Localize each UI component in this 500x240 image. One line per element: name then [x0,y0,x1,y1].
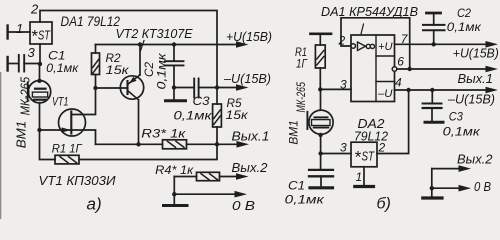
wire: output to Vyh1 [397,68,487,70]
ground symbol at C2 [166,88,186,101]
capacitor C3 [194,79,198,98]
svg-text:R4* 1к: R4* 1к [155,165,194,177]
svg-text:1: 1 [356,170,363,184]
pin 6 output circle [392,67,397,72]
op-amp DA1 box [351,35,395,102]
resistor R1 [55,155,79,164]
wire: -U arrow line [217,87,238,89]
wire: R4 down to 0V node [173,177,175,195]
svg-text:6: 6 [397,54,404,68]
svg-text:С2: С2 [142,62,156,77]
svg-text:R3* 1к: R3* 1к [141,129,186,141]
wire: DA1 pin3 down to node A [39,44,41,64]
wire: +U rail [96,44,239,46]
wire: to DA2 pin 3 [321,153,351,155]
svg-text:Вых.1: Вых.1 [232,129,270,143]
junction dot -U rail [215,85,219,89]
svg-text:–U(15В): –U(15В) [447,92,495,106]
capacitor C2 (b) [423,15,445,45]
capacitor C3 (b) [423,90,442,121]
svg-text:+U(15В): +U(15В) [226,30,272,44]
svg-text:ST: ST [362,150,376,164]
microphone BM1 MK-265 [28,79,51,103]
wire: -U rail right segment [199,87,217,89]
wire: 0V arrow line (b) [432,187,461,189]
op-amp triangle symbol [358,42,366,51]
junction dot 0V node [172,192,176,196]
svg-text:0,1мк: 0,1мк [157,53,169,90]
svg-text:С3: С3 [193,94,210,108]
svg-text:+U(15В): +U(15В) [453,47,499,61]
wire: pin3 input [320,88,351,90]
+U arrowhead (b) [486,41,499,48]
svg-text:Вых.2: Вых.2 [232,161,268,175]
junction dot R1 bottom [318,87,322,91]
wire: pin7 to +U [395,43,488,45]
ground bar DA2 pin1 [355,185,374,188]
junction dot feedback/output [408,67,412,71]
wire: Vyh2 branch vertical [431,169,433,189]
wire: pin2 feedback loop [341,18,410,69]
svg-text:DA1 КР544УД1В: DA1 КР544УД1В [321,4,418,19]
svg-text:МК-265: МК-265 [296,82,308,113]
wire: -U rail left segment [174,87,194,89]
svg-text:VT1 КП303И: VT1 КП303И [39,174,116,188]
svg-text:C3: C3 [449,109,463,123]
svg-text:R1 1Г: R1 1Г [52,143,83,155]
junction dot 0V (b) [430,186,434,190]
svg-text:Вых.2: Вых.2 [457,153,493,167]
svg-text:а): а) [87,195,102,214]
transistor VT2 KT3107E [120,75,143,100]
junction dot collector/source line [136,142,140,146]
junction dot Vyh1 [215,142,219,146]
svg-text:–U(15В): –U(15В) [223,72,271,86]
leader line to op-amp [361,24,364,34]
Vyh2 arrowhead [236,173,249,180]
svg-text:15к: 15к [226,108,250,122]
wire: Vyh2 arrow line [432,168,461,170]
svg-text:0,1мк: 0,1мк [285,195,325,207]
capacitor C2 [165,45,184,88]
Vyh1 arrowhead (b) [486,66,499,73]
junction dot C3 top (b) [430,88,434,92]
wire: pin4 to -U [395,89,488,91]
svg-text:0 В: 0 В [232,199,255,213]
-U arrowhead [236,84,249,91]
junction dot VT2 emitter on +U rail [138,42,142,46]
junction dot C2 bottom (b) [432,42,436,46]
svg-text:Вых.1: Вых.1 [458,72,494,86]
leader line to VT2 [141,41,145,52]
wire: DA2 pin1 to ground [363,167,365,186]
svg-text:–U: –U [377,88,393,100]
wire: DA1 pin2 to top rail down to -U junction [40,11,217,88]
node B junction dot [93,86,97,90]
svg-text:3: 3 [340,140,347,154]
wire: mic top to R1 junction [320,89,322,110]
ground symbol (b outputs) [423,188,442,198]
gate node junction dot [37,128,41,132]
wire: R1 to Vyh1 junction [79,144,217,159]
gate arrow of VT1 [62,127,71,132]
junction dot mic bottom [318,133,322,137]
svg-text:1Г: 1Г [296,57,308,71]
wire: node A to microphone [39,64,41,81]
svg-text:0 В: 0 В [474,180,491,194]
resistor R4 [174,172,238,180]
wire: 0V arrow line [174,193,236,195]
svg-text:+U: +U [378,41,393,53]
Vyh2 arrowhead (b) [459,165,472,172]
svg-text:2: 2 [338,34,346,48]
page edge artifact [0,72,1,219]
svg-text:ВМ1: ВМ1 [14,121,29,149]
0V arrowhead (b) [459,185,472,192]
-U arrowhead (b) [486,87,499,94]
resistor R5 [213,88,222,145]
svg-text:DA1 79L12: DA1 79L12 [61,13,121,29]
svg-text:2: 2 [30,2,39,17]
label BM1 MK-265 vertical (b) [289,82,309,145]
svg-text:С1: С1 [288,178,305,192]
svg-text:С1: С1 [48,48,66,62]
Vyh1 arrowhead [237,141,250,148]
svg-text:ВМ1: ВМ1 [289,120,301,145]
svg-text:0,1мк: 0,1мк [447,22,482,34]
wire: DA2 pin2 up to -U line [377,90,409,154]
svg-text:4: 4 [395,75,402,89]
label BM1 MK-265 vertical [14,76,33,148]
transistor VT1 KP303I [59,109,86,136]
wire: Vyh1 arrow line [217,143,238,145]
wire: VT2 base from node B [96,87,128,89]
infinity symbol [366,44,374,48]
wire: VT2 emitter up to +U rail [139,45,141,75]
ground bar C1 (b) [310,186,333,189]
common terminal bar (C2 top) [427,12,441,15]
junction dot C2 top on +U rail [172,42,176,46]
svg-text:2: 2 [378,140,386,154]
svg-text:ST: ST [38,29,51,43]
capacitor C1 (b) [309,154,333,187]
wire: VT1 source down to output line [71,130,95,144]
pin 2 inversion circle [351,44,356,49]
junction dot C2 bottom on -U rail [172,85,176,89]
ground symbol at 0V node [164,194,188,205]
svg-text:VT1: VT1 [52,95,69,109]
microphone BM1 MK-265 (b) [307,110,333,134]
common terminal bar (pin1) [6,26,8,39]
label C2 vertical [142,53,169,90]
wire: VT2 collector down to output line [138,100,140,145]
svg-text:3: 3 [28,45,36,60]
resistor R2 [92,45,100,89]
node A junction dot [38,62,42,66]
wire: R1 branch from gate node [40,130,56,160]
junction dot DA2 pin2 on -U line [406,88,410,92]
svg-text:15к: 15к [106,63,131,77]
+U arrowhead [236,41,249,48]
svg-text:0,1мк: 0,1мк [443,126,481,138]
voltage regulator DA1 79L12 box [30,22,52,44]
svg-text:0,1мк: 0,1мк [174,111,213,123]
resistor R3 [163,140,218,149]
0V arrowhead [235,191,248,198]
common terminal bar (R1 top) [311,32,332,35]
capacitor C1 [8,55,40,72]
svg-text:0,1мк: 0,1мк [46,63,79,75]
svg-text:МК-265: МК-265 [18,76,33,115]
ground bar C3 (b) [425,121,443,124]
wire: VT1 drain up to node B [71,88,95,115]
wire: DA1 pin1 to common [8,31,30,33]
voltage regulator DA2 79L12 box [351,142,377,167]
wire: microphone to gate node [39,103,41,130]
resistor R1 [315,35,325,89]
svg-text:VT2 КТ3107Е: VT2 КТ3107Е [116,27,194,41]
svg-text:C2: C2 [457,6,471,20]
junction dot C1/pin3 node [318,151,322,155]
svg-text:б): б) [377,196,391,213]
wire: source line to R3 [96,143,163,145]
wire: mic bottom down [320,134,322,154]
wire: gate of VT1 [40,129,71,131]
svg-text:1: 1 [16,21,23,36]
svg-text:3: 3 [340,77,347,91]
